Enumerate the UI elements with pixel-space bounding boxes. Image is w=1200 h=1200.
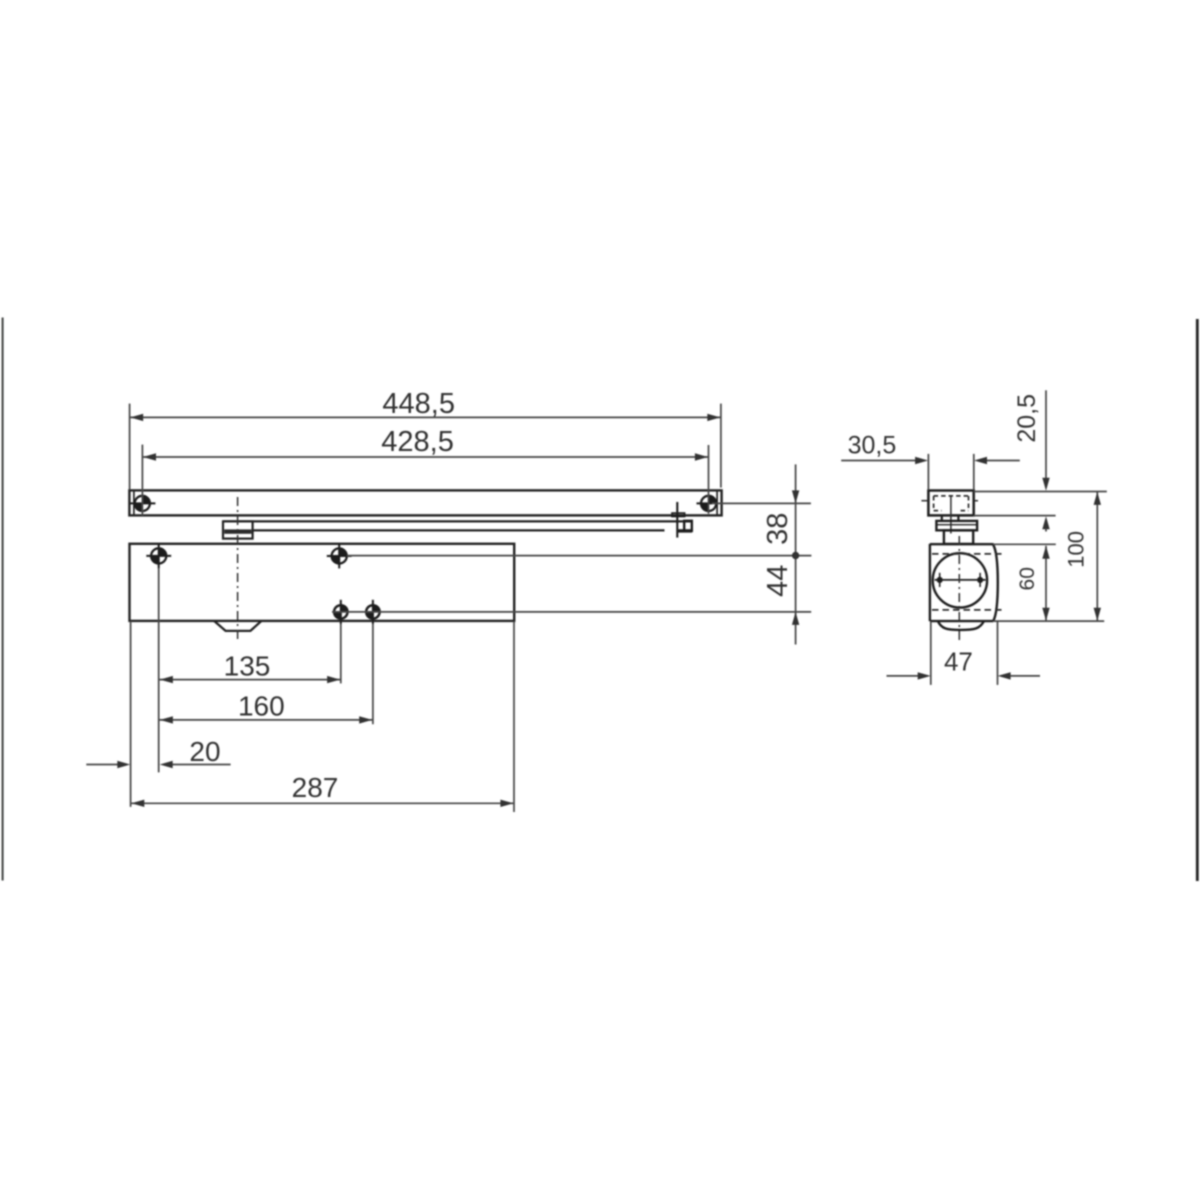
reference line body top (60 top) xyxy=(993,543,1056,545)
svg-text:100: 100 xyxy=(1064,531,1089,568)
dimension 428,5 screw spacing xyxy=(142,426,708,516)
slide rail outline (front view) xyxy=(129,490,721,515)
svg-text:44: 44 xyxy=(762,565,794,597)
svg-text:47: 47 xyxy=(944,647,973,677)
svg-text:38: 38 xyxy=(762,513,794,545)
rail fixing screw right xyxy=(697,496,717,511)
dimension 20 (outside arrows) xyxy=(86,736,230,768)
reference line body lower screws (44 bottom) xyxy=(332,611,811,613)
svg-text:30,5: 30,5 xyxy=(848,432,897,460)
reference line body top screws (38/44 junction) xyxy=(347,555,811,557)
reference line rail top (100 top) xyxy=(974,491,1107,493)
rail C-profile hidden edges (dashed) xyxy=(934,496,969,511)
dimension 448,5 overall rail length xyxy=(130,388,721,490)
svg-text:160: 160 xyxy=(238,690,285,721)
svg-text:287: 287 xyxy=(292,772,339,803)
slider block at arm right end xyxy=(672,502,692,538)
dimension 100 (rail top to body bottom) xyxy=(1064,492,1102,621)
valve screw lower 2 xyxy=(366,600,379,624)
svg-text:448,5: 448,5 xyxy=(382,388,455,420)
arm upper edge xyxy=(223,520,692,522)
svg-text:135: 135 xyxy=(224,650,271,681)
pinion boss arc below body xyxy=(938,621,984,630)
valve screw lower 1 xyxy=(334,600,347,624)
dimension 30,5 (rail section width, outside arrows) xyxy=(841,432,1020,490)
svg-text:60: 60 xyxy=(1016,567,1039,590)
pinion boss cutout at body bottom xyxy=(215,621,262,631)
dimension 287 (body length) xyxy=(131,772,514,807)
photo edge left xyxy=(2,318,4,881)
rail end cap right xyxy=(716,491,718,515)
dimension 47 (body width, outside arrows) xyxy=(887,622,1041,685)
rail end cap left xyxy=(133,491,135,515)
extension line from lower screw 2 down xyxy=(372,624,374,724)
body mounting screw top-middle xyxy=(327,544,352,569)
closer body outline (side view) xyxy=(930,544,998,621)
extension line from lower screw 1 down xyxy=(340,624,342,684)
rail section centre tick marks xyxy=(921,500,978,502)
dimension 60 (body height) xyxy=(1016,546,1050,621)
hidden mounting plate edge upper (dashed) xyxy=(932,553,1002,555)
svg-text:20: 20 xyxy=(189,736,220,767)
rail/spindle centre line xyxy=(950,497,952,534)
extension line body left edge down xyxy=(130,621,132,807)
dimension 38 (rail axis to body screw axis) xyxy=(762,464,799,644)
svg-text:428,5: 428,5 xyxy=(381,426,454,458)
body vertical centre line (dash-dot) xyxy=(958,536,960,642)
extension line body right edge down xyxy=(513,621,515,812)
pinion centre line (dash-dot) xyxy=(237,497,239,641)
photo edge right xyxy=(1196,319,1199,881)
extension line from top-left body screw down xyxy=(158,568,160,772)
rail fixing screw left xyxy=(130,496,156,511)
arm shoe bracket (left, on pinion) xyxy=(223,521,253,538)
spindle plate upper xyxy=(936,521,977,530)
reference line body bottom (60/100 bottom) xyxy=(993,620,1104,622)
arm lower edge xyxy=(253,529,665,531)
dimension 160 xyxy=(159,690,372,723)
reference line rail screw axis (38 top) xyxy=(712,502,811,504)
hidden mounting plate edge lower (dashed) xyxy=(932,609,1002,611)
svg-text:20,5: 20,5 xyxy=(1013,394,1041,443)
bore centre dot left xyxy=(937,573,943,587)
dimension 20,5 (rail height, outside arrows) xyxy=(1013,390,1050,531)
spindle plate lower xyxy=(944,530,973,544)
spindle neck xyxy=(942,516,959,521)
dimension 44 (body screw axis to valve axis) xyxy=(762,565,799,625)
piston bore circle xyxy=(933,553,987,607)
bore centre dot right xyxy=(977,573,983,587)
bore horizontal centre line xyxy=(935,579,986,581)
rail cross-section outline (side view) xyxy=(928,491,973,516)
dimension 135 xyxy=(159,650,340,683)
reference line rail bottom (20,5 bottom) xyxy=(974,515,1056,517)
body mounting screw top-left xyxy=(146,544,171,569)
closer body outline (front view) xyxy=(130,544,515,621)
